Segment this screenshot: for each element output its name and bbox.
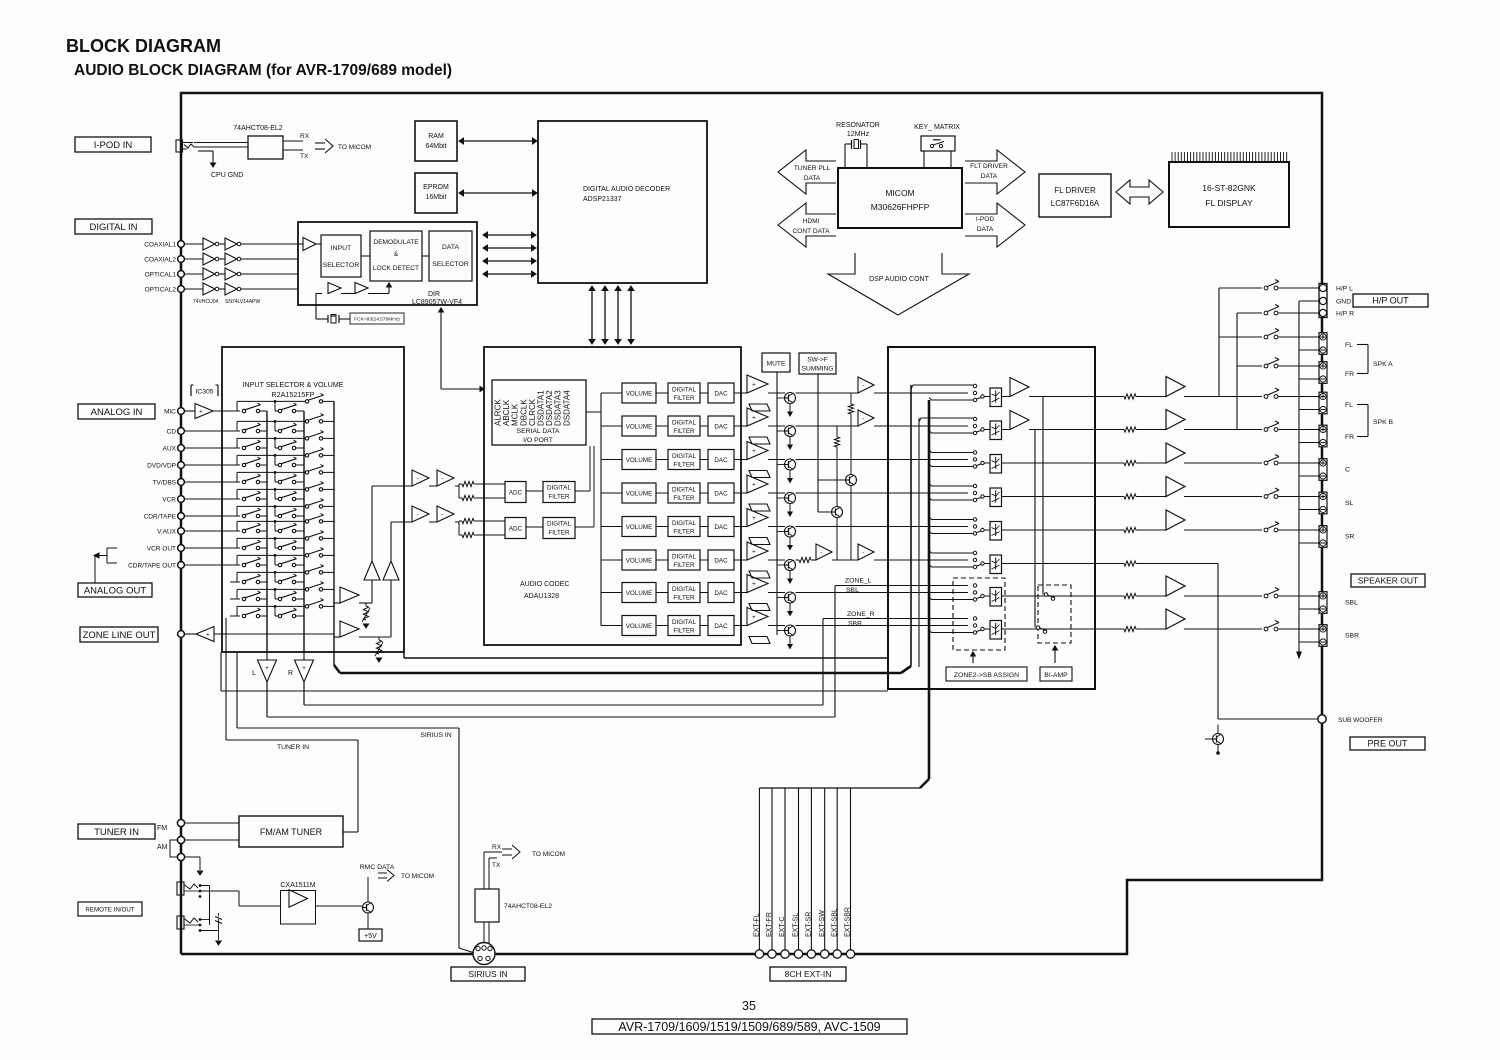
label ANALOG IN <box>78 404 155 419</box>
svg-text:+: + <box>752 481 756 488</box>
arrow rmc to micom <box>378 872 387 874</box>
arrow sirius to micom <box>502 848 512 850</box>
svg-text:DIGITAL: DIGITAL <box>672 420 697 427</box>
svg-text:+: + <box>265 665 269 672</box>
svg-text:DIGITAL: DIGITAL <box>672 554 697 561</box>
svg-text:DAC: DAC <box>714 390 728 397</box>
svg-text:DSDATA4: DSDATA4 <box>562 390 571 426</box>
label DIGITAL IN <box>75 219 152 234</box>
block DATA SELECTOR <box>429 231 472 281</box>
svg-text:RESONATOR: RESONATOR <box>836 122 880 129</box>
svg-text:DIGITAL: DIGITAL <box>672 520 697 527</box>
svg-text:CDR/TAPE: CDR/TAPE <box>144 514 177 521</box>
svg-text:TV/DBS: TV/DBS <box>153 480 177 487</box>
summing resistors and transistors <box>850 393 852 404</box>
svg-text:FR: FR <box>1345 371 1354 378</box>
label PRE OUT <box>1350 737 1425 750</box>
svg-text:KEY_ MATRIX: KEY_ MATRIX <box>914 124 960 131</box>
svg-text:FL: FL <box>1345 342 1353 349</box>
svg-text:I-POD IN: I-POD IN <box>94 140 133 151</box>
model label box <box>592 1019 907 1034</box>
minus terminal stubs <box>1299 349 1319 351</box>
svg-text:FL: FL <box>1345 402 1353 409</box>
svg-text:16Mbit: 16Mbit <box>425 194 446 201</box>
block DEMODULATE LOCK DETECT <box>370 231 422 281</box>
svg-text:EXT-SL: EXT-SL <box>793 913 800 937</box>
svg-text:M30626FHPFP: M30626FHPFP <box>871 202 930 212</box>
selector bus thick lines <box>403 652 405 658</box>
am gnd <box>185 856 201 858</box>
svg-text:VOLUME: VOLUME <box>626 490 653 497</box>
buffer in DIR <box>298 243 303 245</box>
adc chains <box>412 470 429 486</box>
svg-text:VOLUME: VOLUME <box>626 457 653 464</box>
svg-text:DAC: DAC <box>714 423 728 430</box>
svg-text:EXT-SR: EXT-SR <box>806 912 813 937</box>
tuner in route <box>343 831 358 833</box>
outer border frame <box>181 93 1322 954</box>
headphone jacks <box>1319 284 1327 318</box>
rmc transistor <box>363 902 374 913</box>
svg-text:COAXIAL1: COAXIAL1 <box>144 242 176 249</box>
block arrow FLT DRIVER DATA <box>965 150 1025 194</box>
svg-text:VCR OUT: VCR OUT <box>147 546 176 553</box>
remote jack 1 <box>177 882 184 895</box>
spk a stubs <box>1219 287 1262 289</box>
svg-text:-: - <box>862 549 864 556</box>
svg-text:INPUT: INPUT <box>331 245 351 252</box>
serial data io port <box>492 380 586 445</box>
speaker terminal SBL <box>1319 592 1327 614</box>
double arrow fl driver to display <box>1116 180 1163 204</box>
micom M30626FHPFP <box>838 168 962 228</box>
svg-text:COAXIAL2: COAXIAL2 <box>144 257 176 264</box>
tuner wires <box>185 822 240 824</box>
bus RAM-decoder <box>464 140 533 142</box>
svg-text:DATA: DATA <box>804 175 821 182</box>
svg-text:ADC: ADC <box>509 490 523 497</box>
svg-text:-: - <box>442 511 444 518</box>
svg-text:DAC: DAC <box>714 524 728 531</box>
svg-text:DVD/VDP: DVD/VDP <box>147 463 176 470</box>
svg-text:DIGITAL: DIGITAL <box>672 619 697 626</box>
svg-text:+: + <box>752 414 756 421</box>
svg-text:+: + <box>752 515 756 522</box>
zone buffers and level pots <box>334 602 340 604</box>
dsp DIGITAL AUDIO DECODER ADSP21337 <box>538 121 707 283</box>
svg-text:74VHCU04: 74VHCU04 <box>193 299 219 305</box>
svg-text:SPK B: SPK B <box>1373 419 1393 426</box>
svg-text:EPROM: EPROM <box>423 184 449 191</box>
8ch ext-in bus <box>928 689 931 779</box>
svg-text:DIGITAL: DIGITAL <box>547 521 572 528</box>
volume feed bus <box>600 393 602 626</box>
power amp block <box>888 347 1095 689</box>
block arrow TUNER PLL DATA <box>778 150 836 194</box>
label I-POD IN <box>75 137 151 152</box>
svg-text:DIGITAL: DIGITAL <box>672 586 697 593</box>
svg-text:LC87F6D16A: LC87F6D16A <box>1051 199 1100 208</box>
svg-text:SBL: SBL <box>846 587 859 594</box>
svg-text:74AHCT08-EL2: 74AHCT08-EL2 <box>504 903 552 910</box>
svg-text:DIGITAL: DIGITAL <box>672 487 697 494</box>
svg-text:BI-AMP: BI-AMP <box>1044 672 1068 679</box>
svg-text:VOLUME: VOLUME <box>626 524 653 531</box>
svg-text:ANALOG OUT: ANALOG OUT <box>84 585 146 596</box>
label TUNER IN <box>78 824 155 839</box>
ext input EXT-SR <box>810 788 812 950</box>
crystal X1 <box>316 293 322 295</box>
svg-text:SL: SL <box>1345 500 1354 507</box>
mic amp <box>185 410 196 412</box>
svg-text:SIRIUS IN: SIRIUS IN <box>468 969 507 979</box>
svg-text:SW->F: SW->F <box>807 357 828 364</box>
svg-text:+: + <box>752 581 756 588</box>
svg-text:VOLUME: VOLUME <box>626 557 653 564</box>
svg-text:C: C <box>1345 467 1350 474</box>
block arrow DSP AUDIO CONT <box>828 253 969 315</box>
svg-text:TUNER IN: TUNER IN <box>94 827 139 838</box>
block arrow HDMI CONT DATA <box>778 203 836 247</box>
audio codec ADAU1328 <box>484 347 741 645</box>
svg-text:SBR: SBR <box>848 621 862 628</box>
svg-text:CONT DATA: CONT DATA <box>793 228 831 235</box>
svg-text:-: - <box>862 415 864 422</box>
svg-text:-: - <box>417 475 419 482</box>
svg-text:DIGITAL AUDIO DECODER: DIGITAL AUDIO DECODER <box>583 186 670 193</box>
speaker terminal SBR <box>1319 625 1327 647</box>
arrow to micom <box>315 142 325 144</box>
svg-text:DATA: DATA <box>977 226 994 233</box>
svg-text:CXA1511M: CXA1511M <box>280 882 315 889</box>
svg-text:16-ST-82GNK: 16-ST-82GNK <box>1202 183 1256 193</box>
svg-text:FILTER: FILTER <box>548 494 570 501</box>
label ZONE LINE OUT <box>80 627 158 642</box>
svg-text:FILTER: FILTER <box>548 530 570 537</box>
mute control <box>762 353 790 372</box>
svg-text:L: L <box>252 670 256 677</box>
svg-text:H/P R: H/P R <box>1336 311 1354 318</box>
speaker terminal C <box>1319 459 1327 481</box>
label 8CH EXT-IN <box>770 967 846 981</box>
svg-text:ZONE LINE OUT: ZONE LINE OUT <box>83 630 156 641</box>
svg-text:ADC: ADC <box>509 526 523 533</box>
svg-text:I-POD: I-POD <box>976 216 995 223</box>
svg-text:SIRIUS IN: SIRIUS IN <box>420 732 451 739</box>
sw-f summing control <box>799 353 836 374</box>
svg-text:EXT-SBL: EXT-SBL <box>831 908 838 937</box>
svg-text:MICOM: MICOM <box>885 188 914 198</box>
svg-text:SELECTOR: SELECTOR <box>323 262 360 269</box>
fl display 16-ST-82GNK <box>1169 162 1289 227</box>
svg-text:MUTE: MUTE <box>767 361 786 368</box>
ext-in bus vertical <box>928 400 931 689</box>
svg-text:FR: FR <box>1345 434 1354 441</box>
sirius connector <box>473 943 495 965</box>
bus R out <box>303 411 305 652</box>
svg-text:+5V: +5V <box>364 933 377 940</box>
df to serial wires <box>575 490 590 492</box>
svg-text:EXT-C: EXT-C <box>779 916 786 937</box>
svg-text:R2A15215FP: R2A15215FP <box>271 390 314 399</box>
svg-text:EXT-SBR: EXT-SBR <box>845 907 852 937</box>
svg-text:FL DRIVER: FL DRIVER <box>1054 186 1096 195</box>
ext input EXT-C <box>784 788 786 950</box>
svg-text:ZONE_L: ZONE_L <box>845 578 872 585</box>
hp fr vertical <box>1236 313 1238 430</box>
switch matrix R2A15215FP <box>236 401 238 411</box>
svg-text:RX: RX <box>300 133 310 140</box>
gnd bus vertical <box>1298 301 1300 652</box>
memory EPROM 16Mbit <box>415 173 457 213</box>
svg-text:DAC: DAC <box>714 490 728 497</box>
adc input wires <box>372 485 412 487</box>
svg-text:-: - <box>862 382 864 389</box>
bus L out <box>266 411 268 652</box>
svg-text:CDR/TAPE OUT: CDR/TAPE OUT <box>128 563 176 570</box>
svg-text:AUDIO CODEC: AUDIO CODEC <box>520 581 569 588</box>
sw channel summing <box>796 559 800 561</box>
svg-text:MIC: MIC <box>164 409 176 416</box>
svg-text:IC305: IC305 <box>195 389 213 396</box>
svg-text:DIGITAL: DIGITAL <box>672 453 697 460</box>
svg-text:-: - <box>820 549 822 556</box>
svg-text:RAM: RAM <box>428 133 444 140</box>
i-pod jack J1 <box>176 140 183 152</box>
svg-text:+: + <box>752 548 756 555</box>
svg-text:64Mbit: 64Mbit <box>425 143 446 150</box>
svg-text:VOLUME: VOLUME <box>626 623 653 630</box>
svg-text:TUNER PLL: TUNER PLL <box>794 165 831 172</box>
svg-text:SPEAKER OUT: SPEAKER OUT <box>1358 576 1418 586</box>
zone L route <box>267 716 835 718</box>
block arrow I-POD DATA <box>965 203 1025 247</box>
remote jack 2 <box>177 916 184 929</box>
svg-text:EXT-SW: EXT-SW <box>819 910 826 937</box>
label FCX 24.576MHz <box>350 313 404 324</box>
ext input EXT-SW <box>824 788 826 950</box>
svg-text:HDMI: HDMI <box>803 218 820 225</box>
svg-text:FILTER: FILTER <box>673 428 695 435</box>
memory RAM 64Mbit <box>415 121 457 161</box>
svg-text:ZONE2->SB ASSIGN: ZONE2->SB ASSIGN <box>954 672 1019 679</box>
svg-text:DATA: DATA <box>442 244 460 251</box>
wire ipod to 74AHCT08 <box>194 142 248 144</box>
svg-text:AUX: AUX <box>163 446 177 453</box>
bottom wire selector to amp block <box>220 652 222 691</box>
svg-text:ADAU1328: ADAU1328 <box>524 593 559 600</box>
record out bracket to ANALOG OUT <box>107 547 117 549</box>
svg-text:+: + <box>199 408 203 415</box>
svg-text:VOLUME: VOLUME <box>626 390 653 397</box>
biamp feed verticals <box>1042 397 1044 593</box>
zone2 sb assign dashed box <box>953 578 1005 650</box>
svg-text:SR: SR <box>1345 534 1355 541</box>
svg-text:TX: TX <box>492 862 501 869</box>
svg-text:AVR-1709/1609/1519/1509/689/58: AVR-1709/1609/1519/1509/689/589, AVC-150… <box>618 1020 880 1034</box>
wire demod-dataselector <box>422 255 429 257</box>
svg-text:I/O PORT: I/O PORT <box>523 437 553 444</box>
svg-text:CD: CD <box>167 429 177 436</box>
svg-text:R: R <box>288 670 293 677</box>
svg-text:FILTER: FILTER <box>673 562 695 569</box>
ext input EXT-SBR <box>850 788 852 950</box>
svg-text:FILTER: FILTER <box>673 395 695 402</box>
biamp dashed box <box>1038 585 1071 643</box>
svg-text:DAC: DAC <box>714 457 728 464</box>
svg-text:DSP AUDIO CONT: DSP AUDIO CONT <box>869 276 929 283</box>
svg-text:ADSP21337: ADSP21337 <box>583 196 622 203</box>
speaker terminals SPK A <box>1319 333 1327 355</box>
svg-text:SUB WOOFER: SUB WOOFER <box>1338 717 1383 724</box>
svg-text:DEMODULATE: DEMODULATE <box>373 239 419 246</box>
svg-text:BLOCK DIAGRAM: BLOCK DIAGRAM <box>66 36 221 56</box>
svg-text:ANALOG IN: ANALOG IN <box>91 407 143 418</box>
ext input EXT-FL <box>758 788 760 950</box>
output resistors and power amps <box>1124 394 1136 399</box>
svg-text:FILTER: FILTER <box>673 495 695 502</box>
svg-text:TX: TX <box>300 153 309 160</box>
svg-text:SUMMING: SUMMING <box>802 366 834 373</box>
svg-text:TO MICOM: TO MICOM <box>532 851 565 858</box>
svg-text:+: + <box>206 631 210 638</box>
speaker terminal SL <box>1319 492 1327 514</box>
minus amps rows 1-2 <box>858 377 874 393</box>
speaker relays <box>1264 286 1268 290</box>
label H/P OUT <box>1353 294 1428 307</box>
label SPEAKER OUT <box>1351 574 1425 587</box>
speaker terminal SR <box>1319 526 1327 548</box>
svg-text:DAC: DAC <box>714 590 728 597</box>
svg-text:REMOTE IN/OUT: REMOTE IN/OUT <box>85 907 134 914</box>
ext input EXT-SL <box>798 788 800 950</box>
svg-text:SERIAL DATA: SERIAL DATA <box>517 428 560 435</box>
svg-text:FILTER: FILTER <box>673 462 695 469</box>
svg-text:SELECTOR: SELECTOR <box>432 261 469 268</box>
svg-text:VOLUME: VOLUME <box>626 423 653 430</box>
svg-text:SBL: SBL <box>1345 600 1358 607</box>
block INPUT SELECTOR <box>321 235 361 277</box>
sirius rx tx buffer 74AHCT08-EL2 <box>475 889 499 922</box>
bus decoder-codec serial <box>591 291 593 340</box>
label REMOTE IN/OUT <box>78 902 142 916</box>
svg-text:FCX=83(24.576MHz): FCX=83(24.576MHz) <box>354 317 400 323</box>
hp fl vertical <box>1218 288 1220 397</box>
svg-text:LC89057W-VF4: LC89057W-VF4 <box>412 299 462 306</box>
zone R route <box>304 704 823 706</box>
svg-text:DAC: DAC <box>714 623 728 630</box>
label BI-AMP <box>1054 646 1056 663</box>
svg-text:-: - <box>417 511 419 518</box>
sub woofer connector <box>1318 715 1326 723</box>
bus DIR-decoder <box>488 234 532 236</box>
sub woofer route <box>1217 564 1219 720</box>
svg-text:VCR: VCR <box>162 497 176 504</box>
sirius in route <box>237 727 459 729</box>
svg-text:V.AUX: V.AUX <box>157 529 177 536</box>
svg-text:FILTER: FILTER <box>673 595 695 602</box>
svg-text:FM: FM <box>157 825 167 832</box>
analog input wires <box>185 430 241 432</box>
svg-text:AUDIO BLOCK DIAGRAM (for AVR-1: AUDIO BLOCK DIAGRAM (for AVR-1709/689 mo… <box>74 62 452 79</box>
speaker select relays and buffers <box>973 384 976 387</box>
svg-text:SPK A: SPK A <box>1373 361 1393 368</box>
speaker terminals SPK B <box>1319 392 1327 414</box>
svg-text:FILTER: FILTER <box>673 628 695 635</box>
svg-text:VOLUME: VOLUME <box>626 590 653 597</box>
svg-text:+: + <box>752 381 756 388</box>
svg-text:&: & <box>394 251 399 258</box>
svg-text:EXT-FL: EXT-FL <box>754 913 761 937</box>
svg-text:35: 35 <box>742 999 756 1013</box>
label ZONE2->SB ASSIGN <box>972 652 974 663</box>
svg-text:DAC: DAC <box>714 557 728 564</box>
tuner connectors <box>177 819 184 826</box>
svg-text:FM/AM TUNER: FM/AM TUNER <box>260 827 323 837</box>
svg-text:DIGITAL: DIGITAL <box>672 387 697 394</box>
svg-text:H/P OUT: H/P OUT <box>1372 296 1409 306</box>
remote wiring <box>200 885 210 887</box>
ext input EXT-FR <box>771 788 773 950</box>
svg-text:EXT-FR: EXT-FR <box>766 912 773 937</box>
bus zone out <box>333 401 335 665</box>
svg-text:AM: AM <box>157 844 168 851</box>
wire DIR to codec serial <box>440 308 442 380</box>
label ANALOG OUT <box>78 583 152 597</box>
svg-text:FL DISPLAY: FL DISPLAY <box>1205 198 1253 208</box>
svg-text:SN74LV14APW: SN74LV14APW <box>225 299 260 305</box>
fl driver LC87F6D16A <box>1039 174 1111 217</box>
svg-text:DIR: DIR <box>428 291 440 298</box>
wire selector-demod <box>361 255 370 257</box>
svg-text:H/P L: H/P L <box>1336 286 1353 293</box>
svg-text:ZONE_R: ZONE_R <box>847 611 875 618</box>
svg-text:TO MICOM: TO MICOM <box>401 873 434 880</box>
svg-text:PRE OUT: PRE OUT <box>1367 739 1408 749</box>
svg-text:-: - <box>442 475 444 482</box>
volume filter dac rows <box>622 383 656 403</box>
svg-text:RX: RX <box>492 844 502 851</box>
zone bus vertical <box>910 385 912 666</box>
svg-text:DIGITAL: DIGITAL <box>547 485 572 492</box>
svg-text:FILTER: FILTER <box>673 529 695 536</box>
svg-text:+: + <box>752 448 756 455</box>
amp outputs to relays <box>1184 396 1262 398</box>
svg-text:74AHCT08-EL2: 74AHCT08-EL2 <box>233 125 283 132</box>
svg-text:FLT DRIVER: FLT DRIVER <box>970 163 1008 170</box>
fm am tuner block <box>239 816 343 847</box>
+5V supply <box>367 913 369 929</box>
preamp triangles up <box>364 561 380 580</box>
zone line out amp <box>185 633 197 635</box>
label SIRIUS IN <box>451 967 525 981</box>
svg-text:RMC DATA: RMC DATA <box>360 864 395 871</box>
svg-text:TUNER IN: TUNER IN <box>277 744 309 751</box>
dir receiver LC89057W-VF4 <box>298 222 477 305</box>
svg-text:DIGITAL IN: DIGITAL IN <box>89 222 137 233</box>
oscillator buffers in DIR <box>328 283 341 294</box>
svg-text:8CH EXT-IN: 8CH EXT-IN <box>785 969 832 979</box>
row wires to power amp block <box>796 392 859 394</box>
biamp relays <box>1044 593 1048 597</box>
ext input EXT-SBL <box>836 788 838 950</box>
svg-text:12MHz: 12MHz <box>847 131 870 138</box>
svg-text:OPTICAL1: OPTICAL1 <box>145 272 177 279</box>
svg-text:LOCK DETECT: LOCK DETECT <box>373 265 419 272</box>
svg-text:TO MICOM: TO MICOM <box>338 144 371 151</box>
zone line out connector <box>178 631 185 638</box>
svg-text:CPU GND: CPU GND <box>211 172 243 179</box>
